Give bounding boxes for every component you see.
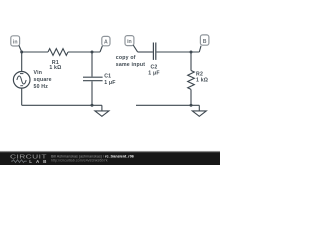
ground (left) stub <box>101 105 103 111</box>
svg-text:1 kΩ: 1 kΩ <box>196 78 208 84</box>
wire: R1 right lead to node A tail <box>68 51 100 53</box>
node in (left) tail <box>19 45 22 52</box>
junction dot at C1 bottom <box>91 104 94 107</box>
footer bar <box>0 152 220 165</box>
ground (right) triangle <box>192 111 206 116</box>
node B flag box <box>200 35 209 45</box>
junction dot at R2 top <box>190 51 193 54</box>
node A tail <box>100 46 102 52</box>
capacitor C1 plates <box>83 76 103 78</box>
svg-text:in: in <box>127 39 132 45</box>
ground (left) triangle <box>95 111 109 116</box>
V1 plus sign <box>20 73 23 75</box>
svg-text:1 kΩ: 1 kΩ <box>49 65 61 71</box>
svg-text:square: square <box>34 77 52 83</box>
junction dot at in node <box>20 51 23 54</box>
V1 sine glyph <box>17 76 26 84</box>
svg-text:1 μF: 1 μF <box>148 71 159 77</box>
capacitor C1 top lead <box>91 52 93 77</box>
wire: V1 bottom down to bottom rail <box>21 88 23 105</box>
wire: in junction down to V1 top <box>21 52 23 75</box>
svg-text:C1: C1 <box>104 74 111 80</box>
node B tail <box>199 46 201 52</box>
node A flag box <box>102 36 110 45</box>
wire: bottom rail left circuit <box>22 104 102 106</box>
svg-text:1 μF: 1 μF <box>104 80 115 86</box>
node in (right) tail <box>133 45 137 52</box>
junction dot at C1 top <box>91 51 94 54</box>
footer bar shadow <box>0 151 220 153</box>
svg-text:copy of: copy of <box>116 55 136 61</box>
node in (right) flag box <box>125 36 134 46</box>
wire: bottom rail right circuit <box>136 104 199 106</box>
resistor R2 bottom lead <box>190 89 192 105</box>
wire: in junction to R1 left lead <box>22 51 48 53</box>
resistor R2 top lead <box>190 52 192 71</box>
wire: C2 right plate to node B tail <box>156 51 199 53</box>
capacitor C2 plates <box>152 43 154 60</box>
node in (left) flag box <box>11 36 20 46</box>
wire: in (right) to C2 left plate <box>138 51 153 53</box>
resistor R1 <box>48 49 68 56</box>
svg-text:LAB: LAB <box>29 159 50 164</box>
svg-text:same input: same input <box>116 62 145 68</box>
voltage source V1 circle <box>13 72 30 89</box>
junction dot at R2 bottom <box>190 104 193 107</box>
svg-text:B: B <box>203 39 207 45</box>
ground (right) stub <box>198 105 200 111</box>
resistor R2 <box>188 71 195 90</box>
capacitor C1 bottom lead <box>91 81 93 105</box>
svg-text:Vin: Vin <box>34 70 43 76</box>
svg-text:50 Hz: 50 Hz <box>34 84 49 90</box>
svg-text:http://circuitlab.com/c4v83nk8: http://circuitlab.com/c4v83nk86b7k <box>51 158 108 162</box>
svg-text:in: in <box>13 39 18 45</box>
V1 minus sign <box>20 85 23 87</box>
svg-text:A: A <box>104 40 108 46</box>
CircuitLab logo zigzag <box>11 160 27 163</box>
